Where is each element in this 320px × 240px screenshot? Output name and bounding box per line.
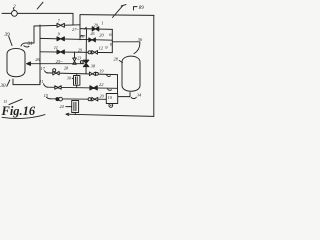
wire V73 drop from H1 bbox=[72, 14, 74, 25]
tank T2 (right) bbox=[122, 56, 140, 91]
svg-text:27~: 27~ bbox=[72, 27, 79, 32]
fitting circle right of relief bbox=[80, 61, 83, 64]
pump stem lead bbox=[12, 8, 15, 10]
component box 40 bbox=[106, 94, 117, 104]
wire R3 branch long bbox=[40, 51, 112, 54]
fitting circle on R9 bbox=[88, 98, 91, 101]
svg-text:11: 11 bbox=[54, 45, 58, 50]
wire V113 manifold bbox=[111, 29, 113, 52]
wire R9 row bbox=[50, 98, 106, 101]
svg-text:29: 29 bbox=[78, 47, 82, 52]
lead line 13 (figure pointer) bbox=[9, 99, 22, 104]
wire R7 row bbox=[47, 73, 118, 75]
svg-text:30: 30 bbox=[1, 84, 7, 89]
lead line 9 (figure pointer) bbox=[113, 6, 123, 17]
valve 22 (filled bowtie) bbox=[90, 86, 97, 90]
wire outer loop right edge bbox=[153, 15, 155, 116]
wire outer loop bottom edge bbox=[66, 114, 154, 116]
pipe tank T2 bottom outlet bbox=[118, 93, 130, 97]
svg-text:23: 23 bbox=[77, 55, 81, 60]
svg-text:1: 1 bbox=[101, 21, 103, 26]
label 89 with hook bbox=[134, 7, 138, 10]
squiggle lead on R8 end bbox=[108, 89, 112, 90]
wire R2 branch long bbox=[40, 38, 112, 40]
wire R1 branch bbox=[34, 25, 80, 26]
svg-text:25~: 25~ bbox=[56, 59, 63, 64]
fitting circle on R3 bbox=[88, 51, 91, 54]
wire H1 top supply line bbox=[2, 12, 73, 14]
pump P2 circle on H1 bbox=[12, 11, 18, 17]
lead 15 bbox=[47, 97, 51, 99]
lead 21 bbox=[44, 84, 48, 87]
svg-text:89: 89 bbox=[139, 6, 145, 11]
tank T1 (left) bbox=[7, 48, 25, 76]
valve 7 (open bowtie) on R1 bbox=[57, 23, 64, 27]
svg-text:21: 21 bbox=[39, 79, 43, 84]
valve 20 (filled bowtie) bbox=[92, 27, 99, 31]
wire R4 branch bbox=[80, 28, 112, 31]
valve 38 (filled vertical hourglass) bbox=[83, 60, 89, 67]
lead line 28 bbox=[119, 61, 122, 63]
lead line 39 bbox=[9, 36, 12, 45]
valve 21 (open bowtie) bbox=[55, 86, 61, 90]
riser wire x34 bbox=[33, 26, 35, 43]
lead 17 bbox=[45, 71, 48, 73]
pipe from tank T1 top bbox=[21, 43, 34, 46]
pump 15 (filled circle + circle) bbox=[56, 98, 59, 101]
pipe tank T1 bottom outlet bbox=[13, 79, 40, 85]
valve 10 (open bowtie) bbox=[92, 97, 98, 101]
squiggle lead on R7 end bbox=[107, 75, 111, 76]
valve 11 (filled bowtie) bbox=[57, 50, 64, 54]
relief valve 23 (vertical open bowtie) bbox=[74, 52, 76, 58]
wire H2 outer loop top bbox=[80, 14, 154, 17]
lead line 30 bbox=[7, 80, 10, 86]
wire R8 row bbox=[47, 87, 118, 88]
svg-text:24: 24 bbox=[60, 104, 64, 109]
gauge circle with dot bbox=[109, 104, 113, 108]
tick on R4 bbox=[85, 27, 87, 29]
wire V86 manifold bbox=[85, 29, 88, 74]
wire V111 manifold bbox=[117, 75, 119, 104]
serif of pointer 9 bbox=[121, 5, 126, 6]
arrowhead at bottom line end bbox=[66, 113, 69, 115]
wire V80 drop to valve rows bbox=[79, 15, 81, 40]
wire V40 manifold bbox=[39, 25, 41, 85]
valve 26 (filled bowtie right) bbox=[89, 38, 96, 42]
svg-text:26: 26 bbox=[91, 31, 95, 36]
svg-text:2: 2 bbox=[13, 4, 16, 10]
lead line 31 bbox=[24, 46, 29, 47]
lead line 34 bbox=[131, 97, 136, 98]
accumulator 24 (rect with plates) bbox=[72, 101, 79, 113]
valve 9 (filled bowtie) bbox=[57, 37, 64, 41]
pipe to tank T2 top bbox=[112, 42, 140, 54]
svg-text:Fig.16: Fig.16 bbox=[1, 104, 36, 118]
valve 12 (open bowtie) bbox=[92, 51, 98, 55]
valve 17 (bowtie with circle actuator) bbox=[53, 71, 59, 75]
arrowhead into tank T1 bbox=[27, 62, 31, 66]
lead line 1 (figure pointer) bbox=[37, 2, 43, 9]
valve 19 (open bowtie with circle) bbox=[89, 72, 95, 76]
accumulator 30 (rect with plates) bbox=[76, 74, 78, 76]
wire return line to tank T1 bbox=[30, 63, 84, 65]
